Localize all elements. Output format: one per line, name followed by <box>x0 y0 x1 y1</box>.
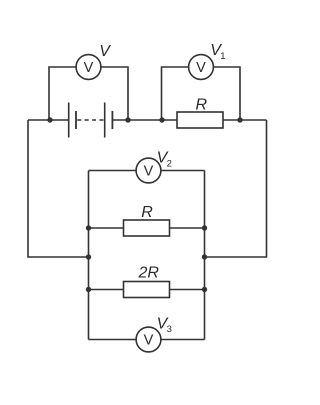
resistor R (parallel branch) <box>124 220 170 236</box>
node junction dot (right rail / branch 2R) <box>202 287 207 292</box>
node junction dot (V loop left on main line) <box>47 117 52 122</box>
svg-text:V: V <box>196 60 206 76</box>
node junction dot (left rail / branch 2R) <box>86 287 91 292</box>
wire parallel network right rail <box>204 171 206 340</box>
wire branch R <box>89 227 205 229</box>
wire main horizontal right segment <box>112 119 266 121</box>
battery GB1 short plate (cell 1) <box>75 111 77 129</box>
battery GB1 long plate (cell 2) <box>104 103 106 138</box>
svg-text:V: V <box>84 60 94 76</box>
wire voltmeter V loop (top-left) <box>49 67 128 120</box>
voltmeter V3 body <box>136 327 161 352</box>
wire branch V2 <box>89 170 205 172</box>
svg-text:R: R <box>196 97 208 114</box>
voltmeter V2 body <box>136 158 161 183</box>
battery GB1 short plate (cell 2) <box>111 111 113 129</box>
voltmeter V1 body <box>189 55 214 80</box>
battery GB1 long plate (cell 1) <box>68 103 70 138</box>
node junction dot (left rail / outer wire) <box>86 254 91 259</box>
svg-text:V1: V1 <box>210 42 225 62</box>
wire right outer rail <box>205 120 267 257</box>
node junction dot (V1 loop right on main line) <box>237 117 242 122</box>
node junction dot (right rail / branch R) <box>202 225 207 230</box>
node junction dot (V loop right on main line) <box>125 117 130 122</box>
wire parallel network left rail <box>88 171 90 340</box>
svg-text:V: V <box>144 163 154 179</box>
wire branch 2R <box>89 289 205 291</box>
wire left outer rail <box>28 120 89 257</box>
svg-text:R: R <box>141 204 153 221</box>
node junction dot (V1 loop left on main line) <box>159 117 164 122</box>
node junction dot (left rail / branch R) <box>86 225 91 230</box>
resistor 2R (parallel branch) <box>124 282 170 298</box>
voltmeter V body <box>76 55 101 80</box>
wire voltmeter V1 loop (top-right) <box>162 67 241 120</box>
battery GB1 dashed link between cells <box>77 119 104 121</box>
svg-text:2R: 2R <box>138 265 160 282</box>
svg-text:V: V <box>99 43 111 60</box>
svg-text:V3: V3 <box>157 316 172 336</box>
svg-text:V: V <box>144 332 154 348</box>
node junction dot (right rail / outer wire) <box>202 254 207 259</box>
resistor R (main line) <box>177 112 223 128</box>
wire main horizontal left segment <box>28 119 69 121</box>
wire branch V3 <box>89 339 205 341</box>
